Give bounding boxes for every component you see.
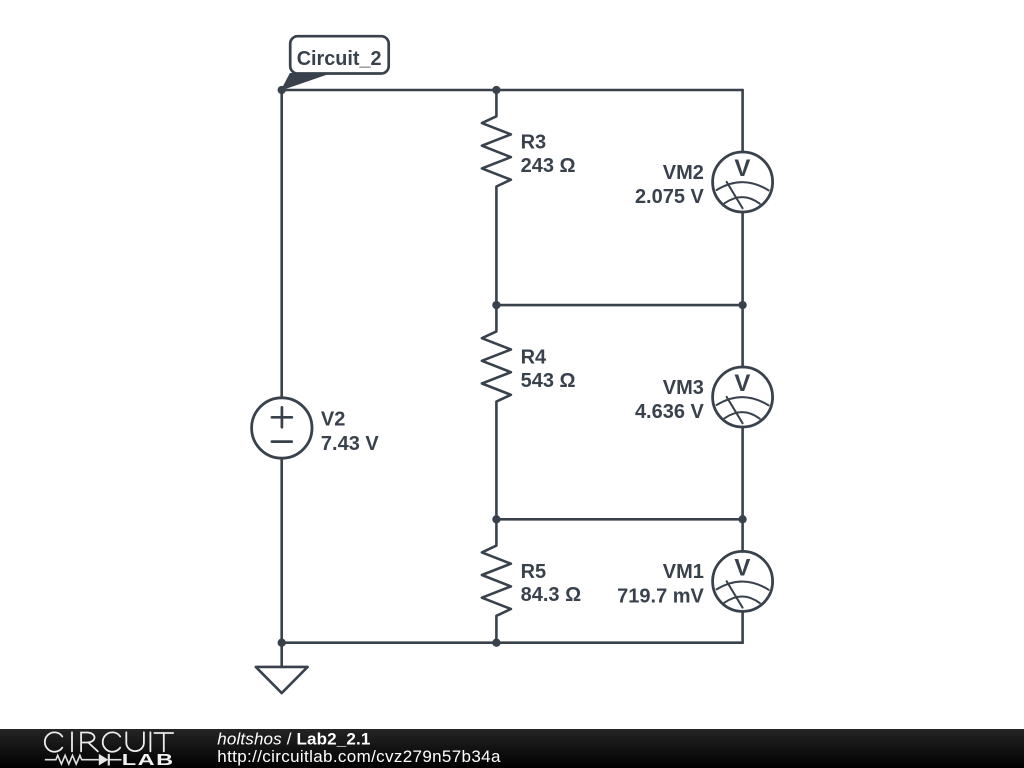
svg-text:7.43 V: 7.43 V [321,433,379,455]
svg-text:VM1: VM1 [663,561,704,583]
svg-text:V: V [734,155,750,182]
svg-text:243 Ω: 243 Ω [521,155,576,177]
svg-text:2.075 V: 2.075 V [635,186,705,208]
svg-text:LAB: LAB [122,751,175,768]
svg-text:V: V [734,554,750,581]
svg-text:VM2: VM2 [663,162,704,184]
svg-text:V2: V2 [321,408,345,430]
svg-text:543 Ω: 543 Ω [521,370,576,392]
svg-text:Circuit_2: Circuit_2 [297,48,382,70]
svg-text:V: V [734,370,750,397]
svg-text:R4: R4 [521,347,547,369]
svg-text:holtshos / Lab2_2.1: holtshos / Lab2_2.1 [217,729,370,748]
svg-text:VM3: VM3 [663,377,704,399]
svg-text:4.636 V: 4.636 V [635,401,705,423]
svg-text:R3: R3 [521,132,547,154]
svg-text:84.3 Ω: 84.3 Ω [521,584,582,606]
svg-text:719.7 mV: 719.7 mV [617,586,704,608]
svg-text:R5: R5 [521,561,547,583]
svg-text:http://circuitlab.com/cvz279n5: http://circuitlab.com/cvz279n57b34a [217,747,501,766]
